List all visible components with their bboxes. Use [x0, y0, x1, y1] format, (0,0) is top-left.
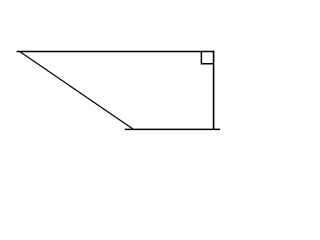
- right side BC (vertical): [213, 51, 215, 130]
- right-angle marker at B: [201, 52, 213, 64]
- hypotenuse AD: [20, 51, 133, 128]
- base line through D and C: [125, 128, 220, 130]
- top side AB: [17, 51, 215, 53]
